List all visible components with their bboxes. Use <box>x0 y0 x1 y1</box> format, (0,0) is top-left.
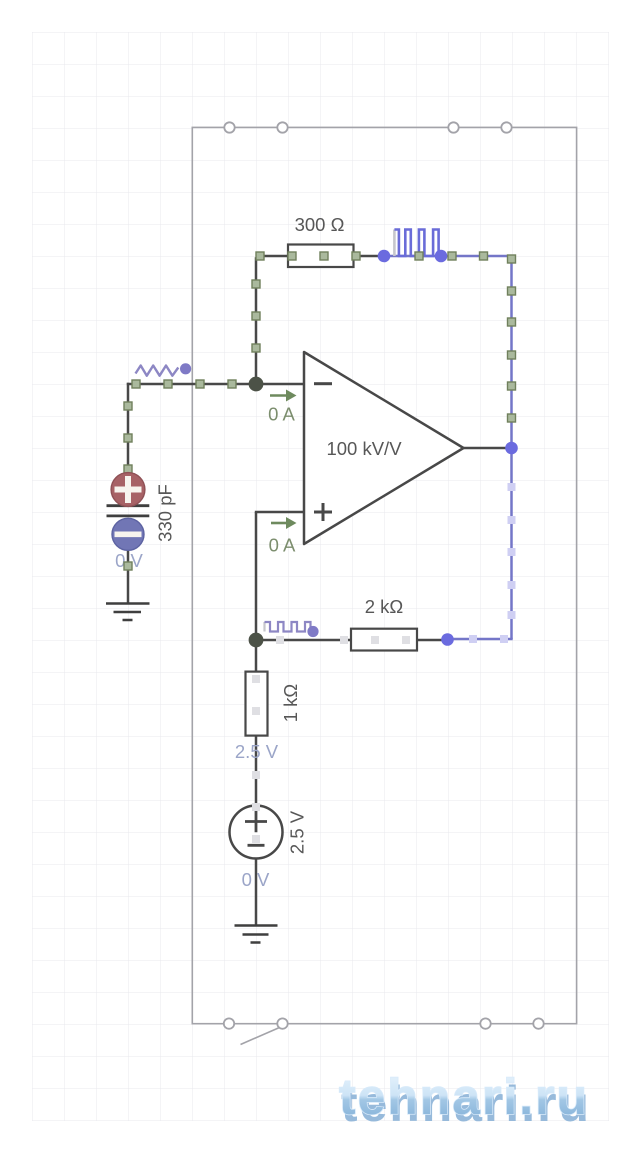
svg-text:330 pF: 330 pF <box>154 484 175 542</box>
value label 2.5 V (source) <box>286 810 307 854</box>
wire 1k resistor to source <box>255 735 258 806</box>
op-amp plus pin mark <box>314 503 332 521</box>
terminal T7 (bottom) <box>480 1018 490 1028</box>
terminal T2 (top) <box>277 122 287 132</box>
value label 300 ohm <box>295 214 345 235</box>
wire junction to 2k resistor <box>256 639 351 642</box>
switch lever (open, bottom) <box>241 1028 280 1045</box>
resistor 1 kohm <box>246 672 268 736</box>
ground (source) <box>235 926 278 943</box>
terminal T3 (top) <box>448 122 458 132</box>
svg-text:0 A: 0 A <box>269 535 296 556</box>
node dot (op-amp output) <box>505 442 518 455</box>
current arrow (inverting input) <box>270 390 297 402</box>
wire 2k resistor to node <box>417 639 447 642</box>
terminal T8 (bottom) <box>533 1018 543 1028</box>
watermark tehnari.ru <box>339 1069 591 1132</box>
junction dot (inverting) <box>249 377 264 392</box>
svg-text:1 kΩ: 1 kΩ <box>280 684 301 723</box>
wire blue bottom horizontal <box>448 638 513 641</box>
wire op-amp output <box>463 447 511 450</box>
node voltage label 2.5 V <box>235 741 279 762</box>
capacitor 330 pF plates <box>107 506 150 516</box>
wire handles (green, output net top) <box>415 252 516 422</box>
wire inverting input <box>256 383 304 386</box>
signal preview sine (inverting net) <box>136 366 179 376</box>
node dot (left of waveform) <box>378 250 391 263</box>
capacitor positive charge ball <box>111 473 145 507</box>
svg-text:100 kV/V: 100 kV/V <box>326 438 402 459</box>
svg-text:300 Ω: 300 Ω <box>295 214 345 235</box>
value label 330 pF <box>154 484 175 542</box>
signal preview square (non-inverting net) <box>265 622 311 632</box>
node voltage label 0 V (source) <box>242 869 270 890</box>
wire handle (capacitor top) <box>124 465 132 473</box>
wire junction to 1k resistor <box>255 640 258 672</box>
node voltage label 0 V (capacitor) <box>115 550 143 571</box>
svg-text:tehnari.ru: tehnari.ru <box>339 1069 589 1125</box>
op-amp <box>304 352 464 544</box>
svg-text:2.5 V: 2.5 V <box>235 741 279 762</box>
wire handles (green, inverting net) <box>124 252 360 570</box>
svg-text:2.5 V: 2.5 V <box>286 810 307 854</box>
node dot (right of waveform) <box>435 250 448 263</box>
svg-text:2 kΩ: 2 kΩ <box>365 596 404 617</box>
wire top-left horizontal <box>256 255 288 258</box>
gain label 100 kV/V <box>326 438 402 459</box>
wire blue right vertical lower <box>510 448 513 639</box>
ground (capacitor) <box>106 604 150 621</box>
wire down to capacitor <box>127 383 130 472</box>
svg-text:0 A: 0 A <box>268 404 295 425</box>
wire handles (faint gray, source net) <box>252 675 260 843</box>
wire capacitor to ground <box>127 550 130 604</box>
wire source to ground <box>255 858 258 926</box>
current label 0 A (inverting) <box>268 404 295 425</box>
svg-text:0 V: 0 V <box>242 869 270 890</box>
enclosure box <box>192 127 576 1023</box>
wire top-left vertical <box>255 257 258 384</box>
wire feedback top (blue net) <box>384 255 440 258</box>
terminal T1 (top) <box>224 122 234 132</box>
current label 0 A (non-inverting) <box>269 535 296 556</box>
node dot (2k right) <box>441 633 454 646</box>
terminal T6 (bottom) <box>277 1018 287 1028</box>
signal preview dot (inverting net) <box>180 363 191 374</box>
wire non-inverting input <box>255 511 304 514</box>
signal preview dot (non-inverting net) <box>307 626 318 637</box>
wire non-inverting down <box>255 512 258 640</box>
wire handles (lavender, output net bottom) <box>469 483 516 643</box>
current arrow (non-inverting input) <box>271 517 297 529</box>
wire blue to corner <box>440 255 512 258</box>
wire resistor to node <box>353 255 384 258</box>
value label 1 kohm <box>280 684 301 723</box>
value label 2 kohm <box>365 596 404 617</box>
junction dot (non-inverting) <box>249 633 264 648</box>
output waveform square wave <box>394 230 438 257</box>
op-amp minus pin mark <box>314 382 332 385</box>
wire handles (faint gray, 2k net) <box>276 636 410 644</box>
capacitor negative charge ball <box>112 518 144 550</box>
terminal T4 (top) <box>501 122 511 132</box>
wire blue right vertical upper <box>510 255 513 448</box>
wire inverting row <box>127 383 256 386</box>
terminal T5 (bottom) <box>224 1018 234 1028</box>
voltage source 2.5 V <box>230 806 283 859</box>
resistor 2 kohm <box>351 629 417 651</box>
resistor 300 ohm <box>288 245 354 268</box>
